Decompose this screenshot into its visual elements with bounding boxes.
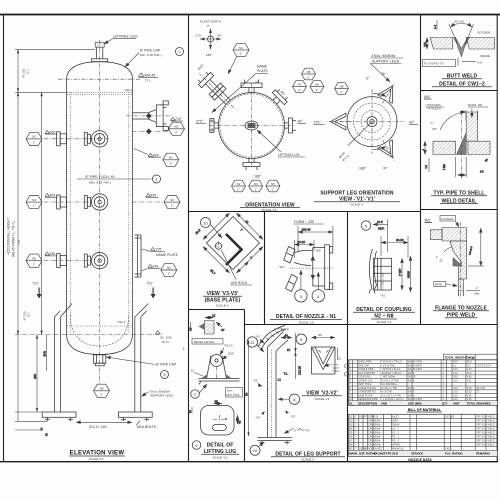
svg-text:0.10: 0.10 <box>453 391 458 394</box>
shell arc hatch ticks <box>262 329 284 344</box>
coupling dim 6000# <box>407 256 410 292</box>
svg-text:'W1': 'W1' <box>279 265 285 269</box>
N1 pipe body lines <box>294 248 325 287</box>
svg-text:90°: 90° <box>298 120 304 124</box>
svg-text:N7: N7 <box>298 83 302 87</box>
svg-text:B.T.L.: B.T.L. <box>163 340 171 344</box>
balloon refs beside table <box>345 364 349 368</box>
svg-text:NOZZ. OD: NOZZ. OD <box>468 103 483 107</box>
dim Ø180 BCD radial <box>338 122 372 163</box>
N1 elbow stub bottom left <box>286 275 298 292</box>
svg-text:PIPE: PIPE <box>435 283 442 287</box>
title SUPPORT LEG ORIENTATION <box>314 191 400 207</box>
svg-text:90: 90 <box>245 392 249 396</box>
label elevation 719 <box>171 117 183 121</box>
svg-text:N3: N3 <box>239 46 243 50</box>
svg-text:OFF SOL. WELD: OFF SOL. WELD <box>476 435 495 438</box>
svg-text:'V3': 'V3' <box>256 416 261 420</box>
svg-text:SA 36: SA 36 <box>408 387 415 390</box>
svg-text:LIFTING LUG: LIFTING LUG <box>278 153 300 157</box>
svg-text:SA 105: SA 105 <box>408 376 416 379</box>
svg-text:'W1': 'W1' <box>381 295 386 298</box>
svg-text:N5: N5 <box>167 266 171 270</box>
svg-text:INSIDE: INSIDE <box>480 54 490 58</box>
label 8" PIPE CAP bottom <box>106 357 177 367</box>
title BUTT WELD <box>432 74 492 88</box>
svg-text:20.3 x 20.7 x 6 THK.: 20.3 x 20.7 x 6 THK. <box>380 394 402 397</box>
svg-text:8" PIPE CAP: 8" PIPE CAP <box>156 363 177 367</box>
svg-text:N3: N3 <box>32 198 36 202</box>
svg-text:864.45 FROM T.L. TO T.L.: 864.45 FROM T.L. TO T.L. <box>12 220 16 257</box>
base plate diamond <box>207 217 260 270</box>
svg-text:0.21: 0.21 <box>467 379 472 382</box>
nozzle at 90 deg <box>285 118 297 133</box>
svg-text:6000#: 6000# <box>374 443 381 446</box>
svg-text:SCALE ¼: SCALE ¼ <box>301 458 315 462</box>
vessel top dished head <box>67 62 133 79</box>
title DETAIL OF COUPLING <box>353 307 415 324</box>
svg-text:0.12: 0.12 <box>453 387 458 390</box>
weld note top 5 TYP <box>274 328 289 332</box>
svg-text:55: 55 <box>215 400 219 404</box>
W1 nozzle wall hatched <box>466 112 477 141</box>
W2 weld dark triangle <box>453 258 463 267</box>
balloon 3 <box>295 270 307 302</box>
svg-text:LG - 1: LG - 1 <box>392 427 399 430</box>
svg-text:AND: AND <box>381 401 387 405</box>
svg-text:1": 1" <box>169 161 172 165</box>
svg-text:4.80: 4.80 <box>467 376 472 379</box>
W2 pipe wall hatched <box>459 279 464 291</box>
center coupling C1 concentric circles <box>89 131 110 147</box>
svg-text:Ø16: Ø16 <box>228 352 234 356</box>
svg-text:SCALE 1:2: SCALE 1:2 <box>213 455 228 459</box>
hexagon N6 <box>161 263 177 276</box>
svg-text:'V2': 'V2' <box>256 335 261 339</box>
svg-text:SA 36: SA 36 <box>408 394 415 397</box>
svg-text:NOZZLE DATA: NOZZLE DATA <box>408 458 432 462</box>
svg-text:3 Nos. 50x50x6: 3 Nos. 50x50x6 <box>371 54 395 58</box>
svg-text:LG - 2: LG - 2 <box>392 431 399 434</box>
balloon 5 <box>361 221 371 231</box>
section divider under view V3-V3 <box>188 309 245 311</box>
label BEVEL DETAIL boxed <box>192 339 223 345</box>
svg-text:180°: 180° <box>206 53 213 57</box>
W2 flange retaining ring hatched <box>431 230 443 240</box>
svg-text:SUPPORT LEGS: SUPPORT LEGS <box>372 60 400 64</box>
dim line 770 <box>40 92 42 334</box>
svg-text:SUPPORT LEGS: SUPPORT LEGS <box>150 394 173 398</box>
section divider: nozzle N1 | coupling / table column <box>347 212 349 462</box>
svg-text:30°: 30° <box>383 166 388 170</box>
support leg chevron at 150 deg <box>375 136 402 165</box>
svg-text:N6: N6 <box>315 83 319 87</box>
svg-text:8": 8" <box>354 415 356 418</box>
svg-text:STIFFENER PLT: STIFFENER PLT <box>358 391 377 394</box>
label NAME PLATE <box>142 248 179 257</box>
W2 pipe lines <box>459 291 464 297</box>
svg-text:SA 106 GR.B: SA 106 GR.B <box>408 361 423 364</box>
hexagon N4 <box>164 196 180 209</box>
svg-text:N2: N2 <box>32 135 36 139</box>
lug side view hole circle <box>211 355 223 367</box>
svg-text:8" SCH 40 x 770 LG.: 8" SCH 40 x 770 LG. <box>380 361 403 364</box>
svg-text:SL.: SL. <box>349 401 354 405</box>
svg-text:LEG SUPPORT: LEG SUPPORT <box>358 372 376 375</box>
svg-text:DETAIL OF: DETAIL OF <box>207 443 234 449</box>
svg-text:HOLE: HOLE <box>333 370 340 373</box>
svg-text:1": 1" <box>100 392 103 396</box>
svg-text:115.45: 115.45 <box>302 227 311 231</box>
svg-text:EA/SET: EA/SET <box>374 447 383 450</box>
small bottom dims 14 36 <box>15 412 49 436</box>
svg-text:SIZE: SIZE <box>359 452 365 456</box>
svg-text:'V1': 'V1' <box>147 281 154 286</box>
W1 left small dims <box>422 141 429 172</box>
svg-text:6000#: 6000# <box>374 419 381 422</box>
svg-text:'W2': 'W2' <box>316 249 322 253</box>
svg-text:N9: N9 <box>100 387 104 391</box>
svg-text:2: 2 <box>183 347 185 351</box>
svg-text:BEVEL DETAIL: BEVEL DETAIL <box>194 340 215 344</box>
svg-text:1": 1" <box>354 443 356 446</box>
label 8" PIPE CAP top <box>125 49 161 68</box>
svg-text:REF.: REF. <box>378 226 385 230</box>
svg-text:1": 1" <box>272 187 275 191</box>
W1 weld prep arc <box>430 112 465 131</box>
svg-text:T.L.: T.L. <box>284 372 289 376</box>
orientation bolt circle dashed <box>220 94 283 157</box>
weld arrows on M1 <box>146 113 152 119</box>
svg-text:80: 80 <box>319 333 323 337</box>
label elevation 864.45 TTL <box>139 73 159 83</box>
svg-text:'V1': 'V1' <box>33 281 40 286</box>
balloon 2 bottom cap <box>161 371 169 379</box>
svg-text:TYP.: TYP. <box>303 429 309 433</box>
svg-text:64.53: 64.53 <box>467 356 475 360</box>
svg-text:PG - 1: PG - 1 <box>392 435 400 438</box>
hexagon N5 elevation <box>26 254 42 267</box>
svg-text:GUSSET PLATE: GUSSET PLATE <box>358 387 376 390</box>
svg-text:90°: 90° <box>218 34 223 38</box>
lifting lug top view center <box>245 121 258 130</box>
svg-text:269: 269 <box>50 252 56 256</box>
lug side view labels R12.5 and Ø16 <box>220 344 234 360</box>
nozzle at 45 deg <box>269 87 290 108</box>
svg-text:1": 1" <box>354 427 356 430</box>
svg-text:1": 1" <box>254 187 257 191</box>
support leg view inner dashed circles <box>354 103 391 140</box>
left dim line leg height <box>245 340 250 436</box>
svg-text:1": 1" <box>354 419 356 422</box>
svg-text:46: 46 <box>285 333 289 337</box>
orientation main shell circle <box>219 93 285 159</box>
svg-text:FLG. RATING: FLG. RATING <box>445 452 463 456</box>
dim 47.225 S.T. bottom <box>23 311 31 321</box>
svg-text:2.45: 2.45 <box>445 447 450 450</box>
svg-text:669: 669 <box>50 130 56 134</box>
svg-text:469: 469 <box>151 194 157 198</box>
svg-text:SHELL PIPE: SHELL PIPE <box>358 361 372 364</box>
orientation centerlines <box>209 83 294 168</box>
svg-text:8" x 8.18 THK.: 8" x 8.18 THK. <box>380 364 396 367</box>
vessel vertical centerline <box>99 40 101 384</box>
svg-text:DESCRIPTION: DESCRIPTION <box>358 401 377 405</box>
title ORIENTATION VIEW <box>240 203 300 213</box>
svg-text:1": 1" <box>354 423 356 426</box>
svg-text:45.0: 45.0 <box>467 361 472 364</box>
balloon 2 pipe cap <box>176 48 184 56</box>
W1 weld fillet dark <box>457 133 467 155</box>
angle cross-section L in plate <box>226 234 242 265</box>
svg-text:LIFTING LUG: LIFTING LUG <box>113 34 138 39</box>
svg-text:BILL OF MATERIAL: BILL OF MATERIAL <box>408 408 442 412</box>
svg-text:L 50x50x6 x 235 LG.: L 50x50x6 x 235 LG. <box>380 372 402 375</box>
svg-text:270°: 270° <box>196 34 203 38</box>
svg-text:N3: N3 <box>254 182 258 186</box>
svg-text:0.43: 0.43 <box>453 368 458 371</box>
label 90 deg support view <box>409 121 418 125</box>
left dim line overall <box>15 49 95 421</box>
svg-text:SA 36: SA 36 <box>408 379 415 382</box>
svg-text:180°: 180° <box>359 167 367 171</box>
svg-text:150 LBS: 150 LBS <box>445 415 455 418</box>
svg-text:VENT HOLE: VENT HOLE <box>358 383 372 386</box>
svg-text:#20 HOLE: #20 HOLE <box>231 281 248 285</box>
svg-text:42: 42 <box>238 420 242 424</box>
svg-text:669: 669 <box>153 153 159 157</box>
svg-text:W2: W2 <box>425 218 432 223</box>
support leg right (30/150 deg pair) <box>135 304 149 413</box>
svg-text:1" NPT 6000#: 1" NPT 6000# <box>380 376 396 379</box>
vessel shell cylinder <box>67 79 133 334</box>
support leg view centerlines <box>340 89 404 154</box>
support leg left (270 deg) <box>55 304 73 413</box>
svg-text:QTY: QTY <box>442 401 448 405</box>
label 270 deg support view <box>314 121 325 125</box>
nozzle schedule table <box>349 414 498 462</box>
svg-text:N1: N1 <box>169 156 173 160</box>
label 8" PIPE SCH 40 <box>77 175 152 185</box>
svg-text:CW-3': CW-3' <box>118 320 127 324</box>
bottom pipe cap fitting <box>93 355 105 366</box>
section divider under detail row (coupling / flange weld) <box>245 324 498 326</box>
svg-text:0°: 0° <box>366 77 370 81</box>
support leg chevron at 270 deg <box>327 113 351 130</box>
lug side weld marks <box>191 370 232 379</box>
svg-text:1": 1" <box>240 52 243 56</box>
vessel bottom dished head <box>67 334 133 355</box>
svg-text:TYP.: TYP. <box>283 328 289 332</box>
svg-text:B.C.D. 160: B.C.D. 160 <box>89 425 106 429</box>
svg-text:2": 2" <box>175 130 178 134</box>
label elevation 669 left <box>45 130 58 134</box>
svg-text:1": 1" <box>316 88 319 92</box>
W1 bottom dims <box>443 157 489 177</box>
dim 46 top <box>281 333 292 337</box>
lug face view rounded plate <box>201 406 235 436</box>
butt weld V groove <box>449 23 474 56</box>
lug side view body <box>199 356 240 385</box>
lug face dims <box>189 400 242 425</box>
svg-text:64.22: 64.22 <box>298 240 306 244</box>
svg-text:37.5: 37.5 <box>377 220 383 224</box>
label elevation 669 right <box>134 149 161 158</box>
hexagon N3 top <box>233 43 249 56</box>
svg-text:270°: 270° <box>196 120 204 124</box>
svg-text:1" NPT: 1" NPT <box>399 268 402 276</box>
svg-text:DRAIN: DRAIN <box>392 423 400 426</box>
W2 label PIPE boxed <box>434 282 458 287</box>
lug face slot <box>213 415 227 431</box>
label 8mm VENT HOLE boxed <box>226 388 243 398</box>
svg-text:55 x 42 x 12 THK.: 55 x 42 x 12 THK. <box>380 379 399 382</box>
svg-text:R12.5: R12.5 <box>225 344 233 348</box>
svg-text:T.T.L.: T.T.L. <box>145 79 152 83</box>
balloon 10 leg <box>250 442 264 455</box>
butt weld plates hatched <box>430 38 495 50</box>
svg-text:1": 1" <box>33 204 36 208</box>
plant north compass <box>196 20 223 58</box>
svg-text:1": 1" <box>354 431 356 434</box>
diamond dim lines <box>194 213 263 276</box>
title ELEVATION VIEW <box>69 451 125 461</box>
dim 57 and 112.25 right <box>278 333 302 382</box>
label 270 deg orientation <box>196 120 206 124</box>
nozzle at 315 deg long flanged <box>193 67 240 114</box>
hexagon N9 bottom <box>94 384 110 397</box>
label W2 <box>425 218 433 223</box>
coupling dim 1 NPT <box>399 258 402 290</box>
svg-text:N8: N8 <box>340 85 344 89</box>
balloon 7 <box>191 384 207 398</box>
svg-text:EL. 0.00: EL. 0.00 <box>161 336 173 340</box>
svg-text:6000#: 6000# <box>374 439 381 442</box>
svg-text:1": 1" <box>298 88 301 92</box>
svg-text:1": 1" <box>307 75 310 79</box>
nozzle M1 right flanged <box>133 101 169 130</box>
angle dim 30 deg top <box>366 71 387 97</box>
svg-text:10: 10 <box>203 220 208 225</box>
svg-text:COUPLING: COUPLING <box>358 376 371 379</box>
svg-text:OFF SOL. WELD: OFF SOL. WELD <box>476 431 495 434</box>
support leg view shell circle <box>347 97 397 147</box>
nozzle N5 stub left lower <box>57 254 67 268</box>
label #20 HOLE <box>221 250 252 286</box>
svg-text:OFF SOL. WELD: OFF SOL. WELD <box>476 419 495 422</box>
svg-text:864.45: 864.45 <box>145 74 156 78</box>
svg-text:249: 249 <box>153 265 159 269</box>
svg-text:SA 106 GR.B: SA 106 GR.B <box>408 368 423 371</box>
title FLANGE TO NOZZLE PIPE WELD <box>433 306 489 319</box>
N1 flange tall <box>325 245 333 290</box>
hexagon M1 <box>169 122 185 135</box>
svg-text:0.62: 0.62 <box>453 376 458 379</box>
svg-text:80 x 50 x 6 THK.: 80 x 50 x 6 THK. <box>380 387 398 390</box>
hexagon N2 <box>26 132 42 145</box>
label FLANGE boxed <box>440 216 459 228</box>
svg-text:8mm: 8mm <box>227 390 232 393</box>
svg-text:SCALE ¼: SCALE ¼ <box>216 303 230 307</box>
svg-text:RF: RF <box>364 415 368 418</box>
svg-text:OFF SOL. WELD: OFF SOL. WELD <box>476 415 495 418</box>
svg-text:0.22: 0.22 <box>453 394 458 397</box>
title VIEW V2-V2 <box>302 391 342 402</box>
svg-text:DETAIL OF NOZZLE - N1: DETAIL OF NOZZLE - N1 <box>276 314 336 320</box>
svg-text:770: 770 <box>17 240 21 245</box>
N2 centerline <box>44 138 89 140</box>
svg-text:S.T.: S.T. <box>26 69 30 74</box>
svg-text:1 Min: 1 Min <box>443 163 446 170</box>
svg-text:N5: N5 <box>307 70 311 74</box>
svg-text:FORM ⌐ 225: FORM ⌐ 225 <box>294 220 314 224</box>
svg-text:OFF SOL. WELD: OFF SOL. WELD <box>476 423 495 426</box>
svg-text:8mm DIA DRILL: 8mm DIA DRILL <box>380 383 398 386</box>
N1 shell stub top left <box>284 247 295 264</box>
svg-text:LIFTING LUG: LIFTING LUG <box>358 379 373 382</box>
label LIFTING LUG <box>104 34 138 45</box>
V2-V2 small view <box>312 333 342 374</box>
W2 angle labels <box>436 247 452 264</box>
svg-text:275: 275 <box>156 248 162 252</box>
svg-text:NAME PLATE: NAME PLATE <box>156 253 179 257</box>
weld note bottom 5 TYP <box>284 429 309 434</box>
svg-text:90°: 90° <box>409 121 415 125</box>
svg-text:W1': W1' <box>424 94 431 99</box>
svg-text:M16 BOLTS: M16 BOLTS <box>137 425 157 429</box>
leader from balloon to plate <box>211 225 223 239</box>
N1 center weld line with arrows <box>311 248 315 287</box>
svg-text:4.52: 4.52 <box>453 372 458 375</box>
balloon 1 shell pipe <box>153 175 161 183</box>
balloon 11 <box>247 337 264 352</box>
svg-text:TOTAL: TOTAL <box>467 401 476 405</box>
svg-text:0.21: 0.21 <box>453 379 458 382</box>
svg-text:UNIT: UNIT <box>453 401 460 405</box>
section divider under orientation views <box>188 211 421 213</box>
side stub left of coupling C3 <box>84 254 90 267</box>
N5 centerline <box>44 260 89 262</box>
svg-text:BASE PLATE: BASE PLATE <box>358 394 373 397</box>
label W1 <box>424 94 432 99</box>
svg-text:SIZE (MM): SIZE (MM) <box>408 401 422 405</box>
rotated dim texts left margin <box>7 218 22 257</box>
svg-text:60°: 60° <box>433 127 438 131</box>
N3 centerline <box>44 201 89 203</box>
balloon 8 <box>278 394 300 404</box>
svg-text:1" SCH 80 x 50 LG.: 1" SCH 80 x 50 LG. <box>380 368 401 371</box>
bolt hole circle <box>214 242 223 251</box>
label FORM E 225 <box>294 220 324 224</box>
svg-text:235: 235 <box>33 374 37 379</box>
svg-text:8" PIPE x SCH. 40: 8" PIPE x SCH. 40 <box>85 175 114 179</box>
svg-text:OUTSIDE: OUTSIDE <box>477 31 490 35</box>
svg-text:M1: M1 <box>174 125 178 129</box>
label 1~5 root <box>458 58 482 67</box>
svg-text:6000#: 6000# <box>374 431 381 434</box>
side stub left of coupling C2 <box>84 196 90 209</box>
label NOZZ OD <box>460 103 488 120</box>
section divider under butt weld detail <box>421 90 498 92</box>
nozzle N1 hidden centerline <box>133 130 169 132</box>
svg-text:26.28: 26.28 <box>396 238 404 242</box>
weld seam CW-3 dotted row <box>67 325 132 327</box>
name plate channel on shell <box>135 235 142 277</box>
title VIEW V3-V3 <box>203 291 242 307</box>
svg-text:VENT HOLE: VENT HOLE <box>226 394 240 397</box>
svg-text:180°: 180° <box>254 175 262 179</box>
svg-text:57: 57 <box>287 348 291 352</box>
